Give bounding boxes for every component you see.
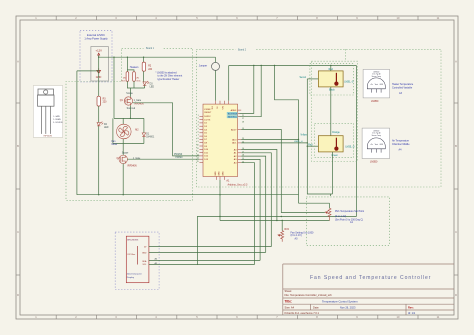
svg-text:3: 3 — [198, 121, 199, 123]
wire: LCD 5V — [149, 246, 271, 248]
wire: Q1 gate to D10 pin — [133, 103, 200, 156]
svg-text:GND: GND — [218, 171, 220, 176]
LM350 spec box 2 — [362, 128, 390, 158]
svg-text:20x4 Character: 20x4 Character — [127, 273, 142, 276]
svg-text:IRF540N: IRF540N — [127, 166, 137, 168]
wire: A3 nested to LCD SDA — [241, 159, 260, 260]
wire: LCD GND — [149, 251, 266, 253]
Arduino left pin stubs — [199, 116, 203, 162]
svg-text:Motor: Motor — [112, 143, 118, 146]
junctions on +5V rail — [253, 65, 331, 66]
svg-text:PWM9: PWM9 — [176, 157, 184, 159]
wire: D2 to GND rail — [98, 126, 100, 195]
svg-text:8: 8 — [198, 138, 199, 140]
wire: A1 nested to LCD 5V — [241, 153, 271, 247]
transistor Q2 IRF540N — [119, 155, 127, 164]
wire: AD07 to lower bus — [241, 130, 325, 213]
svg-text:D: D — [455, 293, 457, 297]
wire: sensor2 bottom — [331, 152, 333, 194]
power supply body PS1 — [91, 47, 108, 82]
wire: A2 nested to LCD GND — [241, 156, 266, 252]
svg-text:A1: A1 — [226, 180, 230, 183]
svg-text:C: C — [455, 230, 457, 234]
LM350 package symbol 1 — [367, 78, 385, 93]
GND symbol — [97, 68, 101, 73]
svg-text:D0/RX: D0/RX — [204, 116, 211, 118]
title block — [283, 264, 454, 315]
svg-text:AD4/SDA: AD4/SDA — [228, 112, 238, 115]
Arduino bottom GND labels — [215, 171, 225, 176]
svg-text:Jumper: Jumper — [199, 65, 208, 68]
sensor harness outer dashed box — [312, 61, 358, 161]
svg-text:Black: Black — [329, 90, 335, 92]
svg-text:B: B — [17, 144, 19, 148]
LCD bracket — [137, 246, 139, 265]
svg-text:Sens1: Sens1 — [299, 77, 306, 79]
Arduino right pin names — [228, 109, 238, 164]
wire: LCD SDA — [149, 259, 260, 261]
svg-text:RESET: RESET — [204, 112, 212, 114]
svg-text:Temperature Control System: Temperature Control System — [322, 300, 358, 304]
svg-text:Sensor Temp: Sensor Temp — [372, 135, 381, 137]
svg-text:Red: Red — [308, 144, 313, 146]
svg-text:+12V: +12V — [96, 48, 103, 52]
wire: Q2 source to GND rail — [122, 164, 124, 195]
svg-text:10: 10 — [197, 145, 199, 147]
svg-text:14: 14 — [197, 158, 199, 160]
svg-text:A4: A4 — [399, 149, 403, 152]
svg-text:5V: 5V — [144, 247, 147, 249]
svg-text:Nov 26, 2023: Nov 26, 2023 — [340, 305, 356, 309]
LCD dashed box — [115, 232, 159, 289]
svg-text:28: 28 — [242, 121, 244, 123]
wire: lower horizontal bus — [198, 216, 357, 265]
svg-text:Fan Speed and Temperature Cont: Fan Speed and Temperature Controller — [310, 275, 431, 281]
svg-text:7: 7 — [198, 135, 199, 137]
wire: 5V feed to pots — [275, 66, 299, 140]
wire: A4 nested to LCD SCL — [241, 163, 254, 265]
svg-text:Size: A4: Size: A4 — [285, 305, 295, 309]
wire: sensor1 bottom to sensor2 top — [330, 87, 332, 136]
svg-text:Heaters: Heaters — [130, 66, 140, 69]
svg-text:1: 1 — [198, 115, 199, 117]
svg-text:I2C Bus: I2C Bus — [128, 254, 136, 256]
wire: Q1 source down — [129, 105, 131, 118]
svg-text:+Vs: +Vs — [370, 84, 373, 86]
svg-text:A: A — [17, 60, 19, 64]
op-amp U1 Arduino Uno body — [203, 104, 238, 176]
sensor 2 dashed box — [315, 123, 354, 157]
svg-text:Q1: Q1 — [120, 100, 124, 102]
annotation sensor2 — [392, 140, 410, 152]
heater values 2N Ohm — [121, 78, 141, 83]
svg-text:AD07: AD07 — [231, 128, 237, 131]
wire: R2 to D3 — [143, 71, 145, 82]
wire: GND return to rail — [77, 71, 99, 195]
fan motor M1 — [117, 124, 132, 139]
potentiometer RV2 — [281, 221, 283, 231]
svg-text:GH1280WX: GH1280WX — [127, 239, 139, 241]
svg-text:Board 2: Board 2 — [238, 49, 247, 52]
svg-text:GND: GND — [142, 253, 147, 255]
wire: D3 to drain node — [144, 86, 146, 89]
svg-text:1 - GATE: 1 - GATE — [53, 115, 61, 118]
potentiometer RV1 — [325, 208, 331, 220]
wire: Q2 gate to D9 pin — [127, 158, 199, 160]
svg-text:D3: D3 — [150, 84, 154, 86]
svg-text:LM35DZ: LM35DZ — [373, 71, 379, 73]
heater element E1 — [126, 72, 129, 82]
svg-text:2 - DRAIN: 2 - DRAIN — [53, 118, 61, 121]
svg-text:Sheet:: Sheet: — [285, 289, 293, 293]
svg-text:220: 220 — [148, 69, 153, 71]
svg-text:15: 15 — [197, 161, 199, 163]
svg-text:R2: R2 — [148, 65, 152, 67]
svg-text:A: A — [455, 60, 457, 64]
svg-text:Sourced: Sourced — [127, 107, 136, 110]
svg-text:11: 11 — [197, 148, 199, 150]
LM350 package symbol 2 — [367, 138, 385, 153]
svg-text:Scope: Scope — [122, 152, 129, 154]
wire: rail to jumper — [215, 57, 217, 62]
svg-text:SCL: SCL — [143, 264, 148, 266]
thermistor TH1 body — [318, 71, 343, 87]
svg-text:5: 5 — [198, 128, 199, 130]
wire: SCL pull to rail — [240, 66, 262, 117]
svg-text:A3: A3 — [399, 92, 403, 95]
wire: AD0 to pot feed — [241, 139, 298, 141]
annotation sensor1 — [392, 83, 414, 95]
LED D3 — [143, 81, 149, 85]
svg-text:Board 1: Board 1 — [146, 47, 155, 50]
svg-text:R3: R3 — [103, 98, 107, 100]
note: LM350 attachment — [156, 71, 183, 80]
Arduino top pin stubs — [216, 101, 229, 104]
svg-text:27: 27 — [242, 118, 244, 120]
Arduino top pin labels — [212, 106, 224, 110]
wire: jumper to VIN pin — [215, 70, 217, 100]
wire: +12V rail — [99, 56, 216, 119]
svg-text:D1: D1 — [146, 133, 150, 135]
LCD pin names — [142, 247, 147, 266]
svg-text:type Resistor Heater: type Resistor Heater — [158, 78, 180, 81]
thermometer glyph TH1 — [334, 73, 338, 86]
dashed group box B (controller section) — [196, 49, 441, 187]
heater element E2 — [133, 72, 136, 82]
svg-text:LM350: LM350 — [371, 100, 379, 103]
svg-text:Rev:: Rev: — [408, 305, 414, 309]
svg-text:LM35_-0: LM35_-0 — [345, 146, 355, 148]
svg-text:Display: Display — [127, 277, 135, 279]
RV1 labels — [335, 210, 364, 224]
svg-text:LED: LED — [150, 86, 155, 88]
junction dots on +12V rail — [98, 57, 144, 58]
svg-text:SDA: SDA — [142, 260, 147, 263]
svg-text:Orange: Orange — [332, 131, 340, 134]
svg-text:Yellow: Yellow — [300, 135, 307, 137]
resistor R2 — [142, 62, 145, 71]
svg-text:LM350: LM350 — [370, 161, 378, 164]
LED D2 — [97, 122, 103, 126]
svg-text:File: Temperature Controller_2: File: Temperature Controller_2.kicad_sch — [285, 293, 333, 297]
svg-text:2N: 2N — [136, 78, 139, 80]
svg-text:AD5/SCL: AD5/SCL — [228, 116, 238, 119]
TO-220 package picture — [33, 86, 62, 138]
wire: fan motor top rail — [113, 118, 144, 155]
svg-text:Scope: Scope — [126, 93, 133, 95]
pots dashed box — [306, 197, 389, 246]
svg-text:1N4001: 1N4001 — [146, 136, 155, 138]
svg-text:Ohm: Ohm — [121, 80, 126, 82]
svg-text:LED: LED — [104, 127, 109, 129]
wire: A0 nested — [241, 150, 277, 221]
svg-text:B: B — [455, 144, 457, 148]
svg-text:C: C — [17, 230, 19, 234]
svg-text:3V3: 3V3 — [212, 106, 214, 109]
LM350 spec box 1 — [363, 69, 390, 98]
svg-text:RV2: RV2 — [285, 229, 290, 231]
svg-text:2: 2 — [198, 118, 199, 120]
svg-text:220: 220 — [103, 102, 108, 104]
wire: GND pin down — [219, 180, 221, 221]
svg-text:KiCad E.D.A. eeschema 7.0.1: KiCad E.D.A. eeschema 7.0.1 — [285, 311, 320, 315]
wire: heater bottoms to Q1 drain — [127, 81, 144, 97]
LCD module DS1 — [126, 236, 149, 283]
power supply dashed box — [80, 30, 112, 82]
svg-text:Ohm: Ohm — [136, 80, 141, 82]
Arduino bottom pin stubs — [217, 177, 225, 180]
svg-text:A0: A0 — [295, 237, 299, 240]
svg-text:GND: GND — [223, 171, 225, 176]
svg-text:Sensor Temp: Sensor Temp — [372, 76, 381, 78]
junctions on lower bus — [219, 216, 283, 221]
thermometer glyph TH2 — [334, 138, 338, 151]
svg-text:LM35_-0: LM35_-0 — [344, 82, 354, 84]
pin highlight AD4/SDA — [227, 112, 238, 115]
svg-text:3 - SOURCE: 3 - SOURCE — [53, 122, 64, 124]
title block fields — [285, 289, 416, 315]
Arduino right pin numbers — [242, 115, 244, 164]
Arduino left pin numbers — [197, 115, 199, 163]
svg-text:4: 4 — [198, 125, 199, 127]
svg-text:Date:: Date: — [313, 305, 319, 309]
svg-text:PWM10: PWM10 — [174, 154, 183, 156]
power supply caption — [84, 34, 108, 40]
svg-text:D1/TX: D1/TX — [204, 119, 211, 121]
svg-text:Q2: Q2 — [117, 158, 121, 160]
dashed group box A (driver section) — [66, 48, 193, 200]
svg-text:RV1 Temperature Set Point: RV1 Temperature Set Point — [335, 210, 364, 213]
wire: sensor1 top to 5V rail — [330, 66, 332, 71]
svg-text:Controlled Variable: Controlled Variable — [392, 86, 413, 89]
svg-text:Id: 1/1: Id: 1/1 — [408, 311, 416, 315]
wire: SDA pull to rail — [240, 66, 254, 114]
svg-text:6: 6 — [198, 131, 199, 133]
group box A label — [144, 45, 164, 49]
sensor 1 dashed box — [310, 64, 354, 95]
wire: GND rail — [77, 194, 299, 196]
svg-text:LM35_-0: LM35_-0 — [294, 141, 303, 143]
svg-text:D: D — [17, 293, 19, 297]
svg-text:9: 9 — [198, 141, 199, 143]
svg-text:Title:: Title: — [285, 300, 293, 304]
svg-text:Chamber Middle: Chamber Middle — [392, 143, 410, 146]
svg-text:1_Gate: 1_Gate — [134, 99, 142, 102]
GND rail junctions — [98, 194, 221, 195]
wire: sensor left rail — [307, 79, 332, 196]
svg-text:M2: M2 — [135, 130, 139, 132]
wire: R3 to D2 — [98, 106, 100, 122]
svg-text:D2: D2 — [104, 124, 108, 126]
svg-text:1 Amp Power Supply: 1 Amp Power Supply — [84, 38, 108, 41]
svg-text:2N: 2N — [123, 78, 126, 80]
wire: +5V distribution rail — [229, 66, 357, 217]
svg-text:12: 12 — [197, 151, 199, 153]
svg-text:13: 13 — [197, 154, 199, 156]
Arduino left pin names — [204, 109, 212, 161]
resistor R3 — [97, 96, 100, 106]
svg-text:AREF: AREF — [231, 109, 237, 112]
svg-text:Fan: Fan — [112, 141, 117, 143]
svg-text:IRF540N: IRF540N — [44, 136, 53, 138]
transistor Q1 IRF540N — [124, 97, 132, 106]
group box B label — [236, 47, 256, 51]
Arduino right pin stubs — [238, 110, 242, 163]
svg-text:A1: A1 — [350, 221, 354, 224]
wire: LCD SCL — [149, 264, 255, 266]
diode D1 — [142, 133, 146, 137]
svg-text:+Vs: +Vs — [370, 144, 373, 146]
thermistor TH2 body — [318, 136, 343, 152]
svg-text:LM35DZ: LM35DZ — [373, 130, 379, 132]
svg-text:IRF540N: IRF540N — [134, 104, 144, 106]
wire: AD1 to sensor rail — [241, 142, 307, 144]
svg-text:Arduino_Uno_v3.3: Arduino_Uno_v3.3 — [228, 183, 248, 186]
pin highlight AD5/SCL — [227, 115, 238, 118]
svg-text:GND: GND — [215, 171, 217, 176]
svg-text:IOREF: IOREF — [204, 109, 211, 111]
